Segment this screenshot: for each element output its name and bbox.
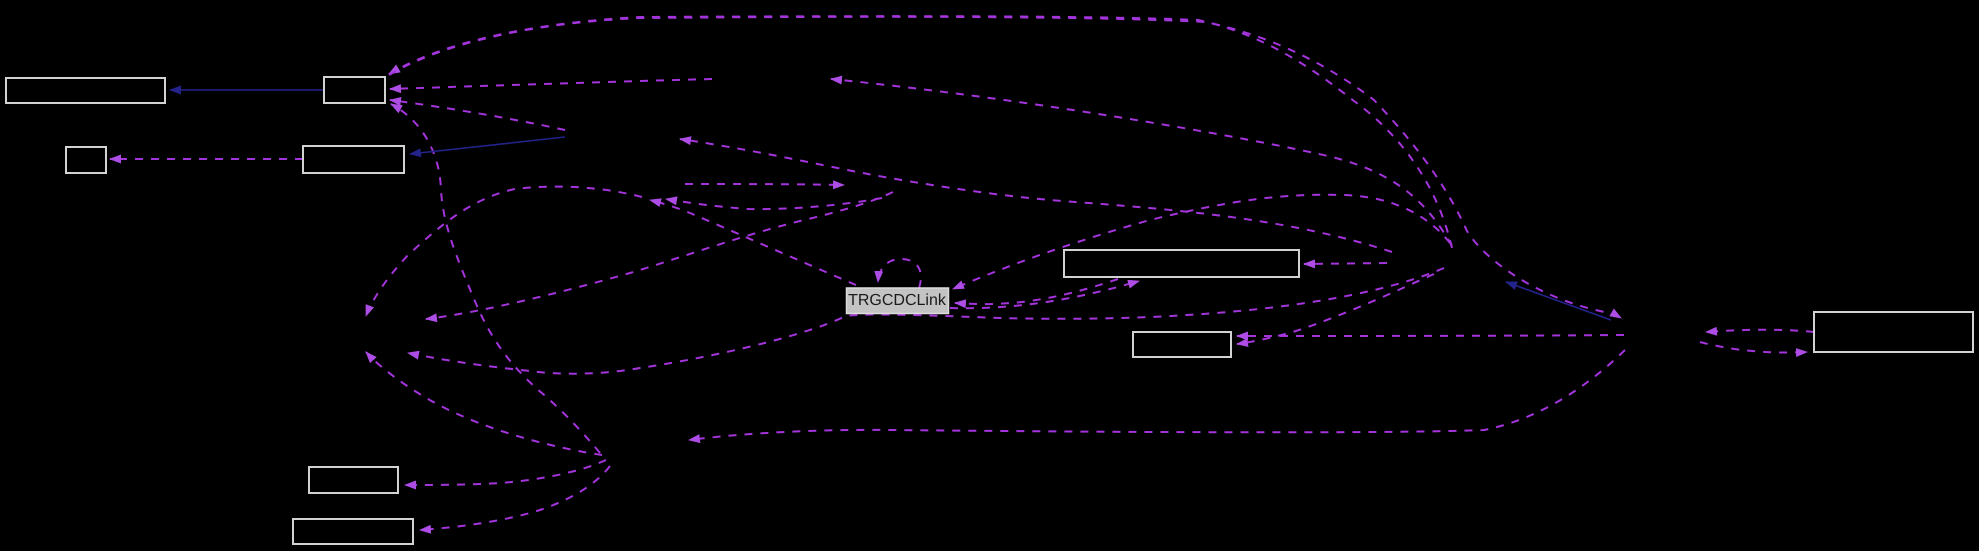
wire blue edge N1 to B4 <box>410 137 565 154</box>
wire edge TRGCDCLink to Nleft <box>650 200 856 285</box>
node B3 <box>66 147 106 173</box>
wire edge Nleft to N5 <box>685 184 844 185</box>
wire edge A to N4b (long shallow U) <box>408 268 1444 374</box>
wire edge A to N1 <box>680 139 1392 252</box>
wire edge N5 to Nleft (sag) <box>666 198 882 209</box>
wire edge A to B2 top (big top curve) <box>389 16 1452 248</box>
wire edge B6 to TRGCDCLink <box>955 279 1118 304</box>
wire edge A to TRGCDCLink <box>953 195 1450 289</box>
wire edge node B to C (long bottom) <box>689 350 1625 440</box>
node TRGCDCLink <box>847 288 949 314</box>
wire blue edge B2 to B1 <box>170 89 324 91</box>
wire edge N5 to N4a <box>426 192 893 319</box>
node B8 <box>1814 312 1973 352</box>
node B10 <box>293 519 413 544</box>
wire edge TRGCDCLink to B6 <box>950 281 1139 308</box>
wire blue edge node B to A <box>1506 282 1611 320</box>
wire edge B8 to node B <box>1706 330 1814 332</box>
wire edge Nleft to N4a <box>366 187 642 316</box>
svg-text:TRGCDCLink: TRGCDCLink <box>848 292 947 309</box>
wire edge C to N4b <box>366 352 602 455</box>
node B2 <box>324 77 385 103</box>
wire edge B4 to B3 <box>110 158 303 160</box>
wire edge Ntop to B2 middle <box>390 79 712 89</box>
node B4 <box>303 146 404 173</box>
node B1 <box>6 78 165 103</box>
node B9 <box>309 467 398 493</box>
node B7 <box>1133 332 1231 357</box>
wire self loop on TRGCDCLink <box>878 259 921 288</box>
wire edge B2 to node B (parallel top curve) <box>389 17 1621 318</box>
wire edge C to B10 <box>420 466 610 530</box>
node B6 <box>1064 250 1299 277</box>
wire edge A to Ntop <box>831 79 1452 246</box>
wire edge A to B7 <box>1237 274 1434 344</box>
wire edge node B to B8 <box>1700 342 1807 353</box>
wire edge node B to B7 <box>1237 335 1624 336</box>
wire edge N1 to B2 bottom <box>390 100 565 130</box>
wire edge A to B6 <box>1304 263 1387 264</box>
wire edge C to B2 bottom (long left bulge) <box>391 104 600 453</box>
wire edge C to B9 <box>405 460 606 485</box>
